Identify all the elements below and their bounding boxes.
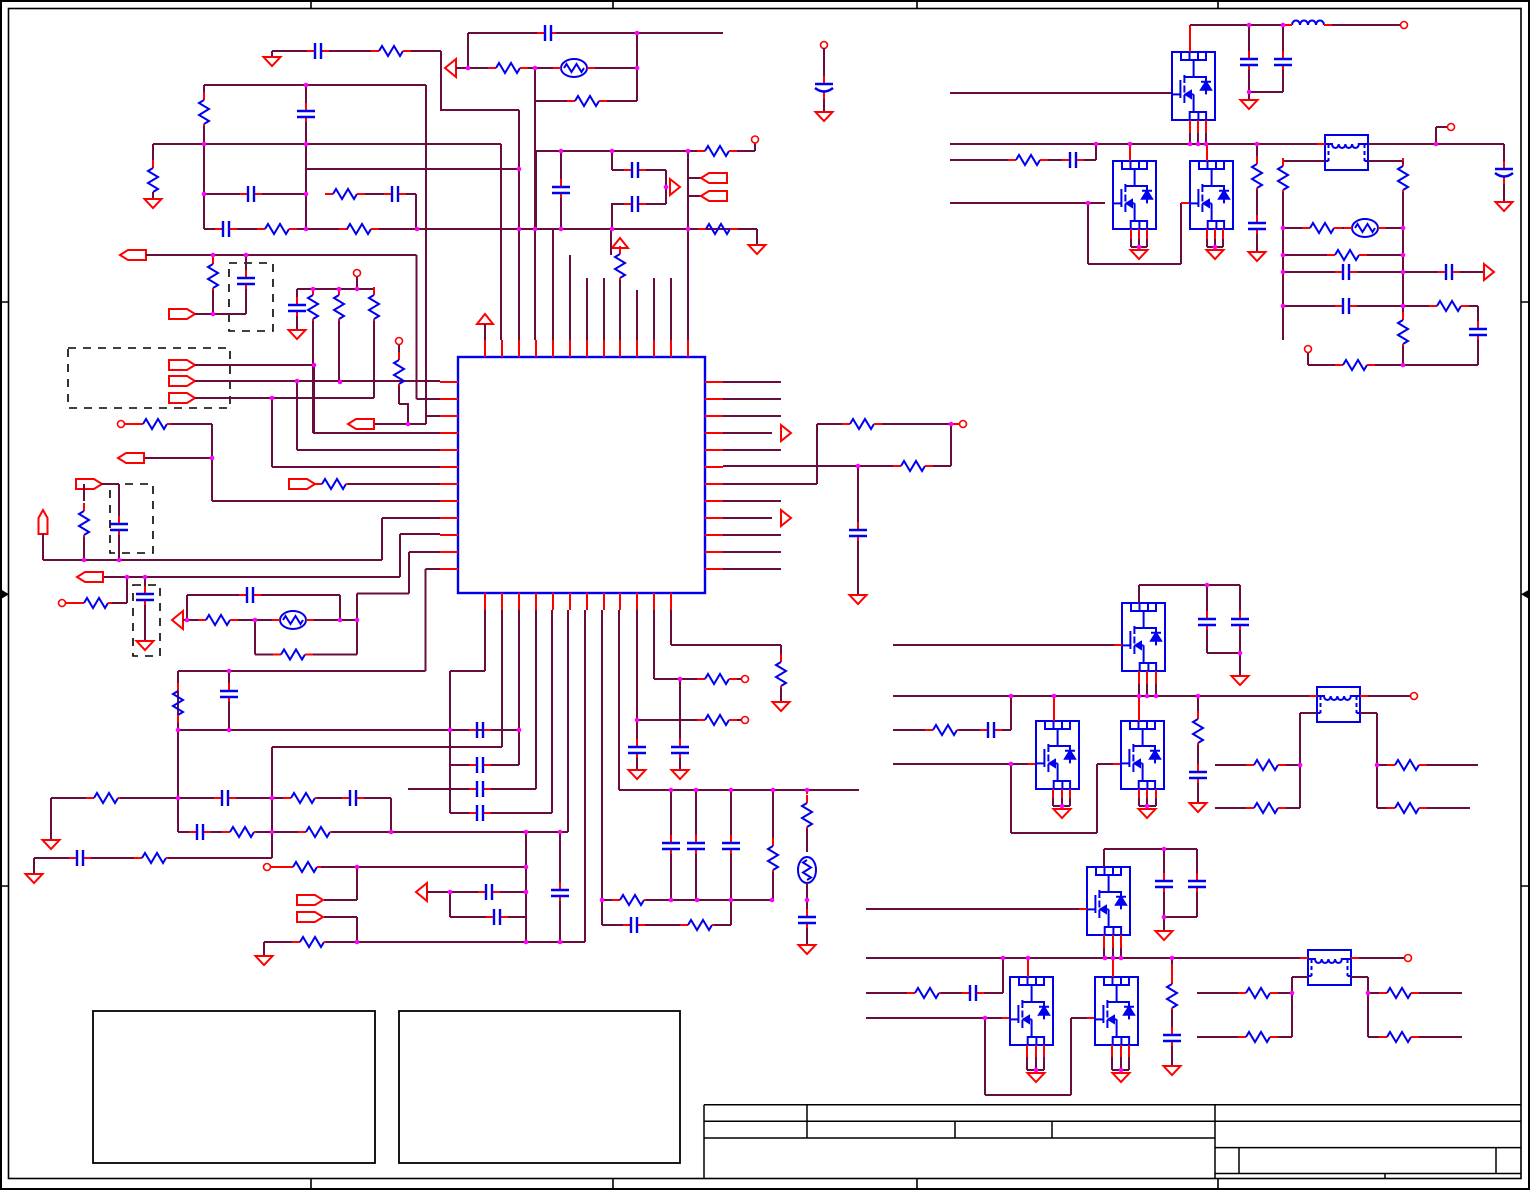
- wire col526: [525, 832, 527, 942]
- wire: [1419, 1036, 1462, 1038]
- junction: [1205, 583, 1210, 588]
- wire: [1087, 203, 1089, 264]
- wire pin552: [551, 610, 553, 813]
- junction: [694, 788, 699, 793]
- wire row620: [183, 619, 202, 621]
- wire pin570 riser: [569, 255, 571, 340]
- wire row765R: [1377, 764, 1387, 766]
- pin lead: [1146, 789, 1148, 798]
- wire row272: [1283, 271, 1335, 273]
- ground: [1190, 803, 1207, 812]
- ground: [672, 770, 689, 779]
- resistor: [772, 838, 774, 846]
- capacitor: [1438, 271, 1460, 273]
- wire: [1120, 1057, 1122, 1070]
- terminal: [742, 717, 749, 724]
- wire stub: [610, 229, 612, 255]
- wire: [332, 831, 568, 833]
- wire: [1402, 228, 1404, 255]
- dashed box D1: [229, 263, 273, 331]
- terminal: [742, 676, 749, 683]
- wire: [1376, 713, 1378, 808]
- wire: [398, 345, 400, 358]
- wire: [398, 386, 400, 404]
- resistor: [198, 619, 206, 621]
- wire: [1282, 161, 1284, 164]
- capacitor: [695, 835, 697, 857]
- wire: [42, 534, 44, 560]
- wire: [152, 192, 154, 199]
- wire: [1130, 239, 1132, 247]
- pin lead: [1112, 958, 1114, 977]
- wire row645: [671, 644, 781, 646]
- junction: [983, 1016, 988, 1021]
- wire row560: [43, 559, 382, 561]
- junction: [1196, 694, 1201, 699]
- junction: [1434, 142, 1439, 147]
- junction: [1026, 956, 1031, 961]
- junction: [304, 83, 309, 88]
- wire bus958: [866, 957, 1308, 959]
- pin lead: [1351, 957, 1359, 959]
- resistor: [842, 423, 850, 425]
- wire: [245, 255, 247, 272]
- wire: [1138, 585, 1140, 603]
- MOSFET Q4: [1122, 603, 1165, 671]
- junction: [600, 898, 605, 903]
- junction: [729, 788, 734, 793]
- wire: [1503, 144, 1505, 163]
- wire: [261, 594, 340, 596]
- wire: [186, 595, 188, 620]
- wire: [408, 552, 410, 594]
- wire: [356, 917, 358, 942]
- wire col272: [271, 398, 273, 467]
- wire: [1239, 653, 1241, 676]
- wire pin416 jog: [426, 415, 440, 417]
- title block lines: [704, 1105, 1521, 1179]
- wire col858: [857, 466, 859, 525]
- wire: [1164, 916, 1197, 918]
- junction: [559, 149, 564, 154]
- wire row720: [637, 719, 697, 721]
- wire: [381, 518, 383, 560]
- wire pin519 riser: [518, 110, 520, 340]
- resistor: [76, 602, 84, 604]
- arrow out: [781, 425, 791, 441]
- wire row730: [178, 729, 519, 731]
- junction: [311, 287, 316, 292]
- wire row484R: [723, 483, 817, 485]
- wire: [823, 99, 825, 112]
- wire: [91, 857, 140, 859]
- wire: [1248, 25, 1250, 54]
- junction: [244, 253, 249, 258]
- wire: [619, 248, 621, 252]
- wire row593: [357, 593, 409, 595]
- capacitor: [679, 739, 681, 761]
- pin lead: [1368, 143, 1376, 145]
- terminal: [118, 421, 125, 428]
- wire: [1402, 192, 1404, 228]
- wire: [730, 854, 732, 900]
- wire: [1278, 1036, 1292, 1038]
- wire: [1360, 712, 1377, 714]
- port: [169, 393, 195, 403]
- wire: [415, 194, 417, 229]
- ground: [1249, 252, 1266, 261]
- pin lead: [1138, 696, 1140, 721]
- wire row160: [950, 159, 1013, 161]
- pin lead: [1026, 1045, 1028, 1057]
- capacitor: [1196, 873, 1198, 895]
- resistor: [371, 50, 379, 52]
- wire pin654: [653, 610, 655, 679]
- arrow in: [416, 883, 427, 901]
- ground: [1139, 809, 1156, 818]
- junction: [211, 312, 216, 317]
- wire: [950, 424, 952, 466]
- capacitor: [228, 683, 230, 705]
- wire col339: [338, 321, 340, 382]
- wire row25: [1190, 24, 1284, 26]
- wire: [1427, 764, 1478, 766]
- pin lead: [1103, 935, 1105, 948]
- capacitor: [1282, 51, 1284, 73]
- pin lead: [1079, 908, 1087, 910]
- MOSFET Q7: [1087, 867, 1130, 935]
- ground: [43, 840, 60, 849]
- wire: [528, 67, 553, 69]
- wire: [1002, 729, 1011, 731]
- junction: [1103, 956, 1108, 961]
- terminal: [1411, 693, 1418, 700]
- wire row569: [426, 568, 441, 570]
- wire col773: [772, 790, 774, 844]
- junction: [1188, 142, 1193, 147]
- pin lead: [1069, 789, 1071, 798]
- junction: [1137, 694, 1142, 699]
- junction: [304, 227, 309, 232]
- wire pin654 riser: [653, 278, 655, 340]
- junction: [338, 380, 343, 385]
- ground: [289, 330, 306, 339]
- wire: [1146, 798, 1148, 806]
- wire: [450, 891, 478, 893]
- ground: [145, 199, 162, 208]
- resistor: [1256, 156, 1258, 164]
- wire: [1368, 160, 1403, 162]
- wire: [1368, 143, 1504, 145]
- wire: [1112, 1069, 1129, 1071]
- junction: [517, 227, 522, 232]
- wire col204: [203, 144, 205, 229]
- wire: [535, 100, 567, 102]
- wire: [256, 831, 304, 833]
- wire: [468, 32, 540, 34]
- IC top pin leads: [485, 340, 688, 357]
- pin lead: [1053, 696, 1055, 721]
- resistor: [257, 228, 265, 230]
- wire row808R: [1377, 807, 1387, 809]
- wire: [254, 620, 256, 655]
- capacitor: [144, 586, 146, 608]
- wire: [1205, 133, 1207, 144]
- pin lead: [1130, 229, 1132, 239]
- wire: [1043, 1057, 1045, 1070]
- resistor: [612, 899, 620, 901]
- port: [701, 173, 727, 183]
- arrow in: [172, 611, 183, 629]
- junction: [270, 830, 275, 835]
- junction: [415, 227, 420, 232]
- junction: [1052, 694, 1057, 699]
- wire: [101, 483, 119, 485]
- wire: [933, 465, 951, 467]
- junction: [805, 788, 810, 793]
- resistor: [893, 465, 901, 467]
- wire: [646, 169, 666, 171]
- wire row458: [145, 457, 212, 459]
- pin lead: [1129, 144, 1131, 161]
- resistor: [1238, 992, 1246, 994]
- border zone ticks top: [311, 1, 1218, 9]
- power flag: [612, 238, 628, 248]
- ground: [773, 702, 790, 711]
- ground: [1054, 809, 1071, 818]
- pin lead: [1155, 789, 1157, 798]
- wire riser to pin: [441, 51, 519, 110]
- resistor: [212, 256, 214, 264]
- wire: [1026, 1057, 1028, 1070]
- wire: [1197, 783, 1199, 803]
- wire: [1282, 192, 1284, 228]
- wire col731: [730, 790, 732, 838]
- wire: [1096, 764, 1098, 833]
- terminal: [960, 421, 967, 428]
- MOSFET Q5: [1036, 721, 1079, 789]
- wire row203 gate: [950, 202, 1105, 204]
- junction: [1290, 991, 1295, 996]
- junction: [1119, 956, 1124, 961]
- wire: [882, 423, 951, 425]
- wire: [1048, 159, 1062, 161]
- capacitor: [806, 909, 808, 931]
- IC U1: [458, 357, 705, 593]
- wire: [1239, 630, 1241, 653]
- IC right pin leads: [705, 382, 723, 569]
- wire row306: [1283, 305, 1335, 307]
- resistor: [1246, 764, 1254, 766]
- wire: [1307, 352, 1309, 365]
- wire col1172: [1171, 958, 1173, 964]
- ground: [799, 945, 816, 954]
- junction: [533, 66, 538, 71]
- wire pin485: [484, 610, 486, 671]
- wire row85: [204, 84, 426, 86]
- resistor: [86, 797, 94, 799]
- junction: [1034, 1068, 1039, 1073]
- arrow in: [445, 59, 456, 77]
- junction: [355, 940, 360, 945]
- wire row433: [313, 432, 440, 434]
- dashed box D2: [68, 348, 230, 408]
- wire row832: [178, 831, 189, 833]
- resistor: [83, 503, 85, 511]
- wire: [1206, 585, 1208, 614]
- wire: [262, 193, 306, 195]
- junction: [1162, 915, 1167, 920]
- pin lead: [1112, 935, 1114, 948]
- wire: [1071, 1017, 1087, 1019]
- wire row747: [272, 746, 502, 748]
- wire: [1097, 763, 1113, 765]
- wire pin604 riser: [603, 278, 605, 340]
- wire: [259, 619, 272, 621]
- transformer T1: [1325, 135, 1368, 170]
- wire: [1282, 228, 1284, 255]
- border zone ticks bottom: [311, 1179, 1218, 1189]
- pin lead: [1120, 1045, 1122, 1057]
- wire: [468, 67, 488, 69]
- junction: [558, 830, 563, 835]
- wire pin637 riser: [636, 290, 638, 340]
- wire: [356, 277, 358, 289]
- wire row900: [602, 899, 618, 901]
- resistor: [203, 92, 205, 100]
- wire jog: [399, 404, 408, 424]
- resistor: [314, 483, 322, 485]
- resistor: [1008, 159, 1016, 161]
- junction: [1298, 763, 1303, 768]
- wire row808L: [1215, 807, 1246, 809]
- wire: [806, 883, 808, 900]
- resistor: [697, 678, 705, 680]
- wire: [607, 100, 637, 102]
- wire: [1196, 849, 1198, 876]
- pin lead: [1028, 763, 1036, 765]
- wire: [211, 831, 228, 833]
- dashed box D3: [110, 484, 153, 553]
- junction: [771, 788, 776, 793]
- wire: [1402, 161, 1404, 164]
- capacitor: [670, 835, 672, 857]
- junction: [1204, 142, 1209, 147]
- wire: [1111, 1057, 1113, 1070]
- wire: [1300, 712, 1317, 714]
- wire: [296, 316, 298, 330]
- varistor RV1: [1352, 219, 1378, 237]
- junction: [517, 167, 522, 172]
- pin lead: [1317, 143, 1325, 145]
- wire gnd stem: [271, 51, 273, 57]
- resistor: [134, 857, 142, 859]
- capacitor: [1206, 611, 1208, 633]
- pin lead: [1206, 144, 1208, 161]
- junction: [355, 618, 360, 623]
- wire: [1206, 630, 1208, 653]
- wire pin row 450: [723, 449, 781, 451]
- wire: [212, 290, 214, 314]
- wire row942: [264, 941, 298, 943]
- junction: [856, 464, 861, 469]
- wire: [1292, 976, 1308, 978]
- border arrow right: [1521, 590, 1529, 599]
- wire: [168, 857, 272, 859]
- wire col450: [449, 671, 451, 813]
- junction: [406, 422, 411, 427]
- terminal: [396, 338, 403, 345]
- wire row518R: [723, 517, 772, 519]
- wire: [1427, 807, 1470, 809]
- wire: [646, 899, 772, 901]
- resistor: [292, 941, 300, 943]
- capacitor: [240, 193, 262, 195]
- wire: [33, 858, 35, 874]
- resistor: [1402, 158, 1404, 166]
- port: [169, 309, 195, 319]
- junction: [729, 898, 734, 903]
- capacitor: [469, 764, 491, 766]
- junction: [448, 728, 453, 733]
- wire: [50, 798, 52, 840]
- wire: [780, 688, 782, 702]
- port: [701, 191, 727, 201]
- wire: [1103, 849, 1105, 867]
- junction: [1111, 956, 1116, 961]
- wire: [237, 228, 257, 230]
- wire: [1163, 892, 1165, 917]
- pin lead: [1138, 229, 1140, 239]
- junction: [389, 830, 394, 835]
- wire row365: [1403, 364, 1478, 366]
- junction: [686, 149, 691, 154]
- wire: [271, 866, 289, 868]
- junction: [524, 865, 529, 870]
- wire: [1084, 159, 1096, 161]
- port: [76, 479, 102, 489]
- terminal: [1305, 346, 1312, 353]
- wire: [456, 67, 468, 69]
- wire: [364, 797, 391, 799]
- capacitor: [1248, 51, 1250, 73]
- wire: [1351, 976, 1368, 978]
- capacitor: [215, 228, 237, 230]
- wire col119: [118, 484, 120, 519]
- wire: [1171, 1010, 1173, 1030]
- capacitor: [342, 797, 364, 799]
- capacitor: [1335, 271, 1357, 273]
- port: [297, 895, 323, 905]
- wire: [941, 992, 962, 994]
- wire: [112, 602, 127, 604]
- junction: [635, 31, 640, 36]
- wire: [1189, 133, 1191, 144]
- wire: [556, 32, 723, 34]
- wire: [411, 50, 441, 52]
- wire: [1283, 160, 1325, 162]
- wire: [144, 577, 146, 589]
- wire: [1402, 346, 1404, 365]
- capacitor: [1171, 1027, 1173, 1049]
- wire: [1248, 70, 1250, 92]
- wire row1018: [866, 1017, 1002, 1019]
- wire: [1180, 203, 1182, 264]
- arrow out: [1484, 264, 1494, 280]
- transformer T3: [1308, 950, 1351, 985]
- wire: [1403, 305, 1429, 307]
- wire: [636, 758, 638, 770]
